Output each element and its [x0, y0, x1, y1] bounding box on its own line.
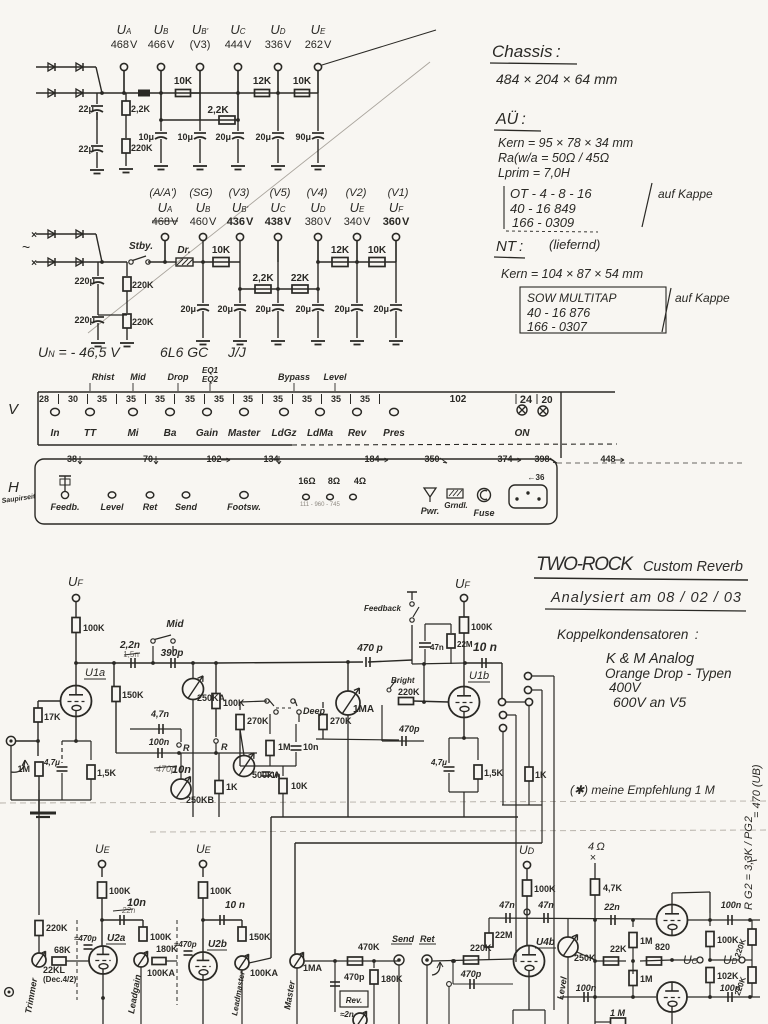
svg-text:600V an V5: 600V an V5 — [613, 694, 686, 710]
svg-text:220K: 220K — [131, 143, 153, 153]
svg-text:220K: 220K — [132, 317, 154, 327]
svg-text:12K: 12K — [331, 245, 350, 256]
svg-text:U2b: U2b — [208, 939, 227, 950]
svg-text:100KA: 100KA — [147, 968, 176, 978]
terminal UA chain1 — [120, 63, 127, 70]
svg-text:(Dec.4/2): (Dec.4/2) — [43, 975, 77, 984]
resistor 10K deep bottom — [279, 779, 287, 794]
resistor 12K bus chain1 — [236, 91, 240, 95]
filter cap 22u first — [96, 93, 98, 104]
svg-text:470p: 470p — [460, 969, 482, 979]
filter cap 220u first chain2 — [97, 262, 99, 276]
svg-text:2,2K: 2,2K — [207, 105, 229, 116]
svg-text:Mid: Mid — [166, 619, 184, 630]
cap 470p top right — [365, 657, 367, 667]
svg-text:35: 35 — [273, 394, 283, 404]
svg-text:EQ2: EQ2 — [202, 375, 219, 384]
panel knob Gain — [203, 408, 212, 415]
svg-text:100n: 100n — [576, 983, 597, 993]
grid resistor 102K right — [706, 968, 714, 983]
loop jack A — [524, 672, 531, 679]
resistor 220K trimmer — [35, 921, 43, 936]
scan fold line horizontal upper — [0, 801, 768, 803]
filter cap 20u at x278 chain2 — [277, 289, 279, 303]
svg-text:166 - 0307: 166 - 0307 — [527, 320, 588, 334]
svg-text:134: 134 — [263, 454, 278, 464]
svg-text:1,5K: 1,5K — [484, 768, 504, 778]
svg-text:OT - 4 - 8 - 16: OT - 4 - 8 - 16 — [510, 186, 592, 201]
svg-text:(SG): (SG) — [189, 187, 213, 199]
svg-text:(liefernd): (liefernd) — [549, 237, 600, 252]
ground chain2 caps — [91, 342, 105, 344]
pointer line from UE terminal — [322, 30, 436, 65]
resistor 1K tail — [525, 767, 533, 781]
parallel RC 47n 22M — [425, 623, 451, 625]
svg-text:100K: 100K — [717, 935, 739, 945]
svg-text:Chassis :: Chassis : — [492, 42, 561, 61]
svg-text:470p: 470p — [398, 724, 420, 734]
AC input wires chain1 — [36, 66, 96, 68]
svg-text:Dr.: Dr. — [177, 245, 190, 256]
svg-text:28: 28 — [39, 394, 49, 404]
terminal chain2 col2 — [236, 233, 243, 240]
svg-text:= 470 (UB): = 470 (UB) — [751, 764, 763, 818]
svg-text:NT :: NT : — [496, 238, 523, 255]
svg-text:35: 35 — [214, 394, 224, 404]
resistor 10K2 bus chain2 — [355, 260, 359, 264]
deep switch right — [291, 699, 295, 703]
svg-text:Kern = 95 × 78 × 34 mm: Kern = 95 × 78 × 34 mm — [498, 136, 633, 150]
svg-text:TWO-ROCK: TWO-ROCK — [536, 554, 634, 575]
resistor 2.2K screen chain2 — [255, 285, 271, 293]
NFB line — [116, 752, 257, 754]
svg-text:(V5): (V5) — [270, 187, 291, 199]
svg-text:102: 102 — [206, 454, 221, 464]
resistor 180K lead — [152, 958, 166, 965]
rectifier diode D7 — [48, 258, 55, 266]
switch R right — [214, 739, 218, 743]
NT slash and kappe note — [662, 288, 671, 332]
svg-text:4Ω: 4Ω — [354, 476, 366, 486]
reverb pot — [353, 1013, 367, 1024]
cap 4.7n branch — [130, 728, 181, 730]
reverb can box — [340, 991, 368, 1007]
terminal UE chain1 — [314, 63, 321, 70]
front panel box — [38, 391, 615, 393]
svg-text:250KB: 250KB — [186, 795, 215, 805]
svg-text:ON: ON — [515, 428, 531, 439]
svg-text:Ba: Ba — [164, 428, 177, 439]
svg-text:270K: 270K — [330, 716, 352, 726]
mains inlet — [509, 485, 547, 508]
svg-text:102: 102 — [450, 394, 467, 405]
grid node U4b — [489, 918, 656, 919]
slope resistor 100K — [215, 663, 217, 694]
ground below 22u caps — [90, 169, 104, 171]
svg-text:220K: 220K — [132, 280, 154, 290]
panel knob Master — [240, 408, 249, 415]
plate node V1a — [74, 661, 78, 665]
rectifier diode D8 — [76, 258, 83, 266]
svg-text:Bypass: Bypass — [278, 372, 310, 382]
svg-text:10n: 10n — [172, 764, 191, 776]
svg-text:Send: Send — [392, 934, 415, 944]
resistor 10K bus chain1 — [159, 91, 163, 95]
resistor 270K mid branch — [239, 702, 241, 710]
svg-text:2,2K: 2,2K — [131, 104, 151, 114]
filter cap 10u at x200 chain1 — [199, 71, 201, 131]
panel knob TT — [86, 408, 95, 415]
ground UA column — [119, 168, 133, 170]
resistor 220K first chain2 — [126, 262, 128, 276]
rectifier diode D5 — [48, 230, 55, 238]
cathode wire V1a — [75, 717, 77, 742]
cathode U2a — [102, 974, 104, 1024]
OT slash and kappe note — [642, 183, 652, 227]
resistor 1M deep branch — [269, 714, 271, 734]
wire UE top — [317, 71, 319, 93]
svg-text:90μ: 90μ — [295, 132, 311, 142]
grid resistor 100K right — [709, 913, 711, 926]
svg-text:Ret: Ret — [420, 934, 436, 944]
svg-text:UD: UD — [519, 843, 535, 857]
svg-text:100K: 100K — [83, 623, 105, 633]
cap 470p U4b — [452, 961, 454, 984]
ground bus V1a — [11, 799, 91, 801]
screen line chain1 — [160, 93, 162, 120]
filter cap 20u at x396 chain2 — [395, 262, 397, 303]
svg-text:35: 35 — [155, 394, 165, 404]
filter cap 20u at x278 chain1 — [277, 93, 279, 131]
cathode resistor 1.5K V1b — [477, 738, 479, 760]
input jack — [6, 736, 15, 745]
svg-text:468 V: 468 V — [152, 216, 179, 228]
svg-text:auf Kappe: auf Kappe — [658, 187, 713, 201]
svg-text:100K: 100K — [210, 886, 232, 896]
svg-text:22M: 22M — [457, 640, 473, 649]
svg-text:22n: 22n — [121, 906, 136, 915]
svg-text:22K: 22K — [291, 273, 310, 284]
svg-text:×: × — [31, 258, 37, 269]
svg-text:Ra(w/a = 50Ω / 45Ω: Ra(w/a = 50Ω / 45Ω — [498, 151, 610, 165]
svg-text:U2a: U2a — [107, 933, 126, 944]
cap 10n deep branch — [295, 724, 297, 742]
grid leak 1M — [37, 741, 39, 756]
svg-text:22KL: 22KL — [43, 965, 66, 975]
svg-text:10K: 10K — [212, 245, 231, 256]
svg-text:24: 24 — [520, 394, 533, 406]
svg-text:20μ: 20μ — [255, 132, 271, 142]
svg-text:10K: 10K — [291, 781, 308, 791]
tone pot 250KA — [183, 679, 204, 700]
screen line chain2 — [239, 262, 241, 289]
svg-text:820: 820 — [655, 942, 670, 952]
svg-text:374: 374 — [497, 454, 512, 464]
PI resistor 820 — [640, 960, 672, 961]
fuse holder — [478, 489, 491, 502]
grid resistor 220K right lower — [748, 967, 756, 983]
svg-text:20μ: 20μ — [373, 304, 389, 314]
wire UD top — [277, 71, 279, 93]
svg-text:Mid: Mid — [130, 372, 146, 382]
rectifier diode D6 — [76, 230, 83, 238]
svg-text:1M: 1M — [640, 974, 653, 984]
rear jack Level — [108, 492, 116, 498]
resistor 4.7K NFB — [591, 879, 600, 895]
svg-text:390p: 390p — [161, 648, 184, 659]
panel knob LdMa — [316, 408, 325, 415]
plate node U2a — [100, 918, 104, 922]
svg-text:35: 35 — [243, 394, 253, 404]
plate resistor 100K U2b — [199, 882, 208, 898]
filter cap 20u at x203 chain2 — [202, 262, 204, 303]
terminal chain2 col0 — [161, 233, 168, 240]
svg-text:2,2K: 2,2K — [252, 273, 274, 284]
svg-text:10K: 10K — [174, 76, 193, 87]
node junction chain2 — [100, 260, 104, 264]
svg-text:Rev.: Rev. — [346, 996, 362, 1005]
svg-text:20μ: 20μ — [180, 304, 196, 314]
svg-text:35: 35 — [97, 394, 107, 404]
grid resistor 220K right upper — [748, 929, 756, 945]
resistor 22M mix — [485, 933, 493, 947]
svg-text:(V4): (V4) — [307, 187, 328, 199]
svg-text:UE: UE — [196, 842, 212, 856]
plate resistor 100K U4b — [523, 880, 532, 896]
rectifier diode D3 — [48, 89, 55, 97]
svg-text:Lprim = 7,0H: Lprim = 7,0H — [498, 166, 571, 180]
svg-text:35: 35 — [331, 394, 341, 404]
lead master pot 100KA — [235, 956, 249, 970]
svg-text:47n: 47n — [498, 900, 515, 910]
cap 100n PI bottom left — [583, 992, 585, 1002]
svg-text:Bright: Bright — [391, 676, 415, 685]
loop jack C2 — [525, 698, 532, 705]
svg-text:17K: 17K — [44, 712, 61, 722]
filter cap 90u at x318 chain1 — [317, 93, 319, 131]
svg-text:Orange Drop - Typen: Orange Drop - Typen — [605, 666, 732, 681]
svg-text:100K: 100K — [109, 886, 131, 896]
svg-text:4,7K: 4,7K — [603, 883, 623, 893]
svg-text:100K: 100K — [150, 932, 172, 942]
svg-text:Kern = 104 × 87 × 54 mm: Kern = 104 × 87 × 54 mm — [501, 267, 643, 281]
resistor 10K2 bus chain1 — [276, 91, 280, 95]
svg-text:4,7n: 4,7n — [150, 709, 170, 719]
svg-text:250K: 250K — [574, 953, 596, 963]
svg-text:35: 35 — [185, 394, 195, 404]
svg-text:≈2n: ≈2n — [340, 1010, 354, 1019]
svg-text:22n: 22n — [603, 902, 620, 912]
filter cap 20u at x318 chain2 — [317, 289, 319, 303]
lead gain pot 100KA — [134, 953, 148, 967]
svg-text:Fuse: Fuse — [473, 508, 494, 518]
svg-text:22K: 22K — [610, 944, 627, 954]
phase inverter input wire — [631, 918, 635, 922]
resistor 220K second chain2 — [123, 314, 131, 328]
svg-text:470 p: 470 p — [356, 643, 383, 654]
cathode U4b — [528, 977, 530, 1010]
panel knob Ba — [166, 408, 175, 415]
svg-text:Master: Master — [228, 428, 261, 439]
svg-text:Pwr.: Pwr. — [421, 506, 440, 516]
terminal chain2 col4 — [314, 233, 321, 240]
svg-text:4,7μ: 4,7μ — [430, 758, 447, 767]
svg-text:SOW MULTITAP: SOW MULTITAP — [527, 291, 617, 305]
svg-text:(V3): (V3) — [229, 187, 250, 199]
rear panel box — [35, 459, 557, 524]
svg-text:468 V: 468 V — [111, 39, 138, 51]
svg-text:LdMa: LdMa — [307, 428, 334, 439]
front panel divider — [560, 392, 562, 458]
svg-text:102K: 102K — [717, 971, 739, 981]
mix node wire — [432, 959, 513, 961]
svg-text:10μ: 10μ — [177, 132, 193, 142]
svg-text:Koppelkondensatoren :: Koppelkondensatoren : — [557, 627, 699, 642]
svg-text:336 V: 336 V — [265, 39, 292, 51]
master pot 1MA power — [290, 954, 304, 968]
svg-text:70: 70 — [143, 454, 153, 464]
plate node V1b — [463, 661, 467, 665]
right coupling wire lower — [687, 996, 760, 998]
rectifier diode D2 — [76, 63, 83, 71]
svg-text:(V2): (V2) — [346, 187, 367, 199]
svg-text:~: ~ — [22, 239, 30, 255]
svg-text:166 - 0309: 166 - 0309 — [512, 215, 574, 230]
fuse blob GB on bus — [138, 90, 150, 97]
filter cap 22u second — [96, 112, 98, 144]
OT ordering block — [503, 186, 505, 229]
panel knob Rev — [353, 408, 362, 415]
svg-text:Stby.: Stby. — [129, 241, 153, 252]
rear jack Footsw — [240, 492, 248, 499]
svg-text:220K: 220K — [398, 687, 420, 697]
svg-text:Custom Reverb: Custom Reverb — [643, 559, 743, 575]
svg-text:380 V: 380 V — [305, 216, 332, 228]
svg-text:20μ: 20μ — [217, 304, 233, 314]
svg-text:340 V: 340 V — [344, 216, 371, 228]
cap 100n right upper — [727, 915, 729, 925]
deep branch bottom — [240, 765, 296, 767]
svg-text:22μ: 22μ — [78, 144, 94, 154]
svg-text:10 n: 10 n — [473, 640, 497, 654]
svg-text:40 - 16 849: 40 - 16 849 — [510, 201, 576, 216]
svg-text:(V3): (V3) — [190, 39, 211, 51]
svg-text:Level: Level — [100, 502, 124, 512]
svg-text:×: × — [31, 230, 37, 241]
PI bias resistor 1M lower — [629, 971, 637, 986]
svg-text:(A/A'): (A/A') — [149, 187, 176, 199]
main ground symbol — [30, 812, 56, 815]
svg-text:220K: 220K — [46, 923, 68, 933]
loop jack D — [499, 711, 506, 718]
svg-text:Rev: Rev — [348, 428, 368, 439]
right coupling wire upper — [687, 919, 760, 921]
svg-text:Mi: Mi — [127, 428, 138, 439]
svg-text:auf Kappe: auf Kappe — [675, 291, 730, 305]
plate node U2b — [201, 918, 205, 922]
terminal UD chain1 — [274, 63, 281, 70]
scan fold line horizontal lower — [150, 830, 768, 832]
svg-text:UE: UE — [95, 842, 111, 856]
cap 470p reverb — [334, 961, 336, 990]
loop jack C — [498, 698, 505, 705]
PI plate wire upper — [671, 893, 673, 905]
resistor 470K reverb drive — [348, 957, 363, 965]
terminal chain2 col1 — [199, 233, 206, 240]
PI bottom wire — [560, 996, 656, 998]
svg-text:22μ: 22μ — [78, 104, 94, 114]
svg-text:400V: 400V — [609, 680, 643, 695]
resistor 1K below 500KA — [218, 753, 220, 780]
svg-text:100n: 100n — [720, 983, 741, 993]
filter cap 20u at x240 chain2 — [239, 289, 241, 303]
wire chain2 col verticals — [277, 241, 279, 289]
svg-text:438 V: 438 V — [265, 216, 292, 228]
resistor 180K reverb — [373, 961, 375, 968]
svg-text:10μ: 10μ — [138, 132, 154, 142]
svg-text:100K: 100K — [223, 698, 245, 708]
svg-text:8Ω: 8Ω — [328, 476, 340, 486]
svg-text:184: 184 — [364, 454, 379, 464]
loop jack E — [499, 724, 506, 731]
feedback RCA jack — [64, 476, 66, 492]
terminal UC chain1 — [234, 63, 241, 70]
level pot 250K — [558, 937, 578, 957]
svg-text:448: 448 — [600, 454, 615, 464]
cathode U2b — [202, 980, 204, 1024]
svg-text:←36: ←36 — [528, 473, 545, 482]
svg-text:(V1): (V1) — [388, 187, 409, 199]
svg-text:100n: 100n — [721, 900, 742, 910]
resistor 12K bus chain2 — [316, 260, 320, 264]
svg-text:398: 398 — [534, 454, 549, 464]
terminal chain2 col5 — [353, 233, 360, 240]
svg-text:LdGz: LdGz — [272, 428, 297, 439]
svg-text:444 V: 444 V — [225, 39, 252, 51]
resistor 10K bus chain2 — [201, 260, 205, 264]
rectifier diode D4 — [76, 89, 83, 97]
svg-text:R: R — [221, 742, 228, 752]
svg-text:150K: 150K — [122, 690, 144, 700]
PI tube upper — [657, 905, 688, 936]
svg-text:Pres: Pres — [383, 428, 405, 439]
bottom left jack — [5, 988, 14, 997]
cathode V1b — [463, 718, 465, 739]
svg-text:6L6 GC: 6L6 GC — [160, 344, 209, 360]
svg-text:R: R — [183, 743, 190, 753]
trimmer feed wire — [38, 790, 40, 915]
svg-text:12K: 12K — [253, 76, 272, 87]
trimmer pot 68K — [32, 953, 46, 967]
NT ordering box — [520, 287, 666, 333]
svg-text:180K: 180K — [381, 974, 403, 984]
svg-text:360 V: 360 V — [383, 216, 410, 228]
svg-text:×: × — [590, 852, 596, 864]
svg-text:Feedb.: Feedb. — [50, 502, 79, 512]
coupling cap 2.2n — [130, 658, 132, 668]
resistor 22K screen chain2 — [292, 285, 308, 293]
cathode cap 4.7u V1b — [448, 738, 450, 763]
deep switch left — [265, 699, 269, 703]
panel knob Mi — [129, 408, 138, 415]
svg-text:262 V: 262 V — [305, 39, 332, 51]
svg-text:Feedback: Feedback — [364, 604, 401, 613]
svg-text:Rhist: Rhist — [92, 372, 116, 382]
PI resistor 22K — [595, 960, 626, 962]
master pot 1MA — [336, 691, 360, 715]
plate resistor 100K U2a — [98, 882, 107, 898]
svg-text:In: In — [51, 428, 60, 439]
